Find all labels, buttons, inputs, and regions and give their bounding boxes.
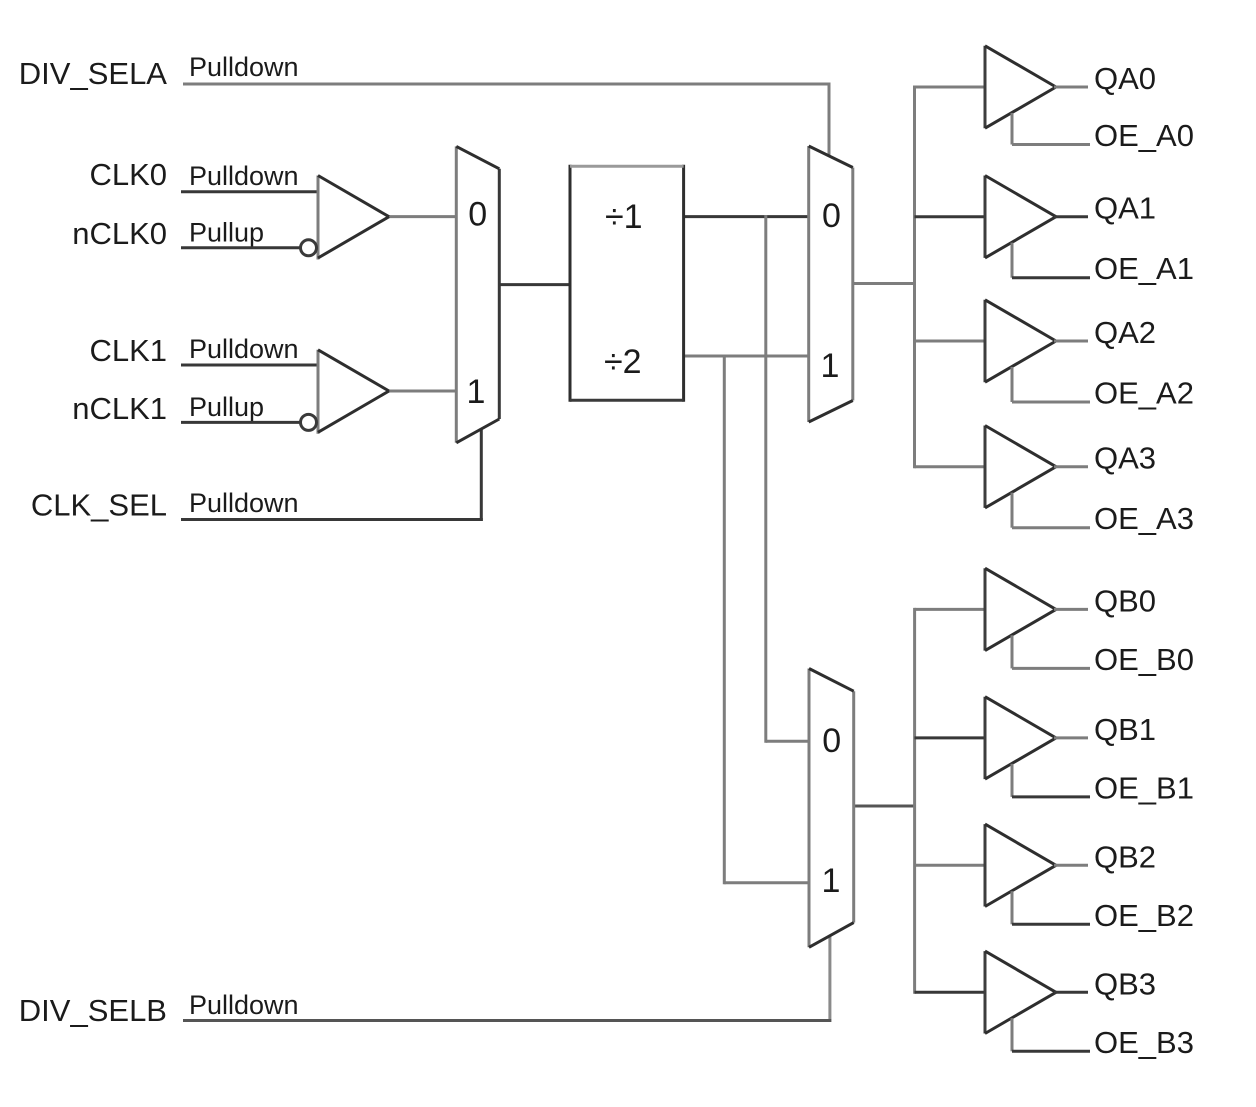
svg-text:CLK1: CLK1 bbox=[89, 333, 167, 368]
output buffer U8 (QA1) bbox=[985, 176, 1056, 258]
wire bus to buffer U14 input bbox=[915, 991, 986, 994]
wire QB2 output bbox=[1054, 864, 1088, 867]
svg-text:Pulldown: Pulldown bbox=[189, 161, 299, 191]
svg-text:QA1: QA1 bbox=[1094, 191, 1156, 226]
bank A divider select mux U5 bbox=[809, 146, 853, 422]
wire divider U4 div1 output to mux U5 input 0 bbox=[684, 215, 809, 218]
svg-text:QA3: QA3 bbox=[1094, 441, 1156, 476]
wire bus to buffer U10 input bbox=[915, 465, 986, 468]
svg-text:CLK_SEL: CLK_SEL bbox=[31, 488, 167, 523]
svg-text:OE_B2: OE_B2 bbox=[1094, 898, 1194, 933]
bank B divider select mux U6 bbox=[809, 669, 854, 948]
wire bus to buffer U7 input bbox=[915, 86, 986, 89]
svg-text:0: 0 bbox=[822, 722, 841, 760]
wire QA3 output bbox=[1054, 465, 1088, 468]
svg-text:OE_B3: OE_B3 bbox=[1094, 1025, 1194, 1060]
svg-text:Pulldown: Pulldown bbox=[189, 990, 299, 1020]
svg-text:Pullup: Pullup bbox=[189, 392, 264, 422]
wire OE_A1 enable input bbox=[1012, 243, 1090, 278]
svg-text:÷2: ÷2 bbox=[604, 343, 642, 381]
wire QA2 output bbox=[1054, 340, 1088, 343]
wire buffer U2 output to mux U3 input 1 bbox=[388, 390, 456, 393]
wire OE_B2 enable input bbox=[1012, 891, 1090, 924]
wire bus to buffer U8 input bbox=[915, 215, 986, 218]
wire OE_B0 enable input bbox=[1012, 635, 1090, 668]
bank B distribution bus bbox=[913, 608, 916, 994]
svg-text:OE_B0: OE_B0 bbox=[1094, 642, 1194, 677]
input buffer U2 (CLK1/nCLK1) bbox=[318, 350, 389, 434]
wire OE_A0 enable input bbox=[1012, 113, 1090, 145]
output buffer U14 (QB3) bbox=[985, 951, 1056, 1033]
wire div2 branch to mux U6 input 1 bbox=[724, 355, 809, 885]
clock select mux U3 bbox=[456, 146, 499, 442]
output buffer U9 (QA2) bbox=[985, 300, 1056, 382]
svg-text:÷1: ÷1 bbox=[605, 198, 643, 236]
wire DIV_SELB to mux U6 select bbox=[183, 936, 831, 1021]
svg-text:OE_A3: OE_A3 bbox=[1094, 501, 1194, 536]
wire CLK1 input bbox=[181, 364, 318, 367]
wire OE_B1 enable input bbox=[1012, 764, 1090, 797]
svg-text:Pulldown: Pulldown bbox=[189, 52, 299, 82]
inversion bubble on nCLK1 bbox=[301, 414, 317, 430]
svg-text:QB2: QB2 bbox=[1094, 839, 1156, 874]
output buffer U10 (QA3) bbox=[985, 426, 1056, 508]
svg-text:OE_A1: OE_A1 bbox=[1094, 251, 1194, 286]
wire bus to buffer U9 input bbox=[915, 340, 986, 343]
wire QB3 output bbox=[1054, 991, 1088, 994]
wire DIV_SELA to mux U5 select bbox=[183, 84, 831, 157]
wire CLK0 input bbox=[181, 190, 318, 193]
svg-text:1: 1 bbox=[822, 862, 841, 900]
svg-text:1: 1 bbox=[467, 373, 486, 411]
svg-text:Pulldown: Pulldown bbox=[189, 334, 299, 364]
divider block U4 bbox=[570, 165, 684, 402]
svg-text:DIV_SELA: DIV_SELA bbox=[19, 56, 168, 91]
wire buffer U1 output to mux U3 input 0 bbox=[388, 215, 456, 218]
output buffer U11 (QB0) bbox=[985, 568, 1056, 650]
wire OE_A3 enable input bbox=[1012, 493, 1090, 528]
svg-text:QA0: QA0 bbox=[1094, 61, 1156, 96]
wire nCLK0 input bbox=[181, 246, 300, 249]
svg-text:Pulldown: Pulldown bbox=[189, 488, 299, 518]
wire div1 branch to mux U6 input 0 bbox=[766, 215, 809, 743]
wire OE_A2 enable input bbox=[1012, 367, 1090, 402]
svg-text:nCLK0: nCLK0 bbox=[72, 216, 167, 251]
wire bus to buffer U12 input bbox=[915, 736, 986, 739]
bank A distribution bus bbox=[913, 86, 916, 469]
wire divider U4 div2 output to mux U5 input 1 bbox=[684, 355, 809, 358]
wire mux U3 output to divider U4 input bbox=[499, 283, 570, 286]
svg-text:0: 0 bbox=[822, 197, 841, 235]
input buffer U1 (CLK0/nCLK0) bbox=[318, 176, 389, 260]
svg-text:QB0: QB0 bbox=[1094, 583, 1156, 618]
output buffer U13 (QB2) bbox=[985, 824, 1056, 906]
wire QB1 output bbox=[1054, 736, 1088, 739]
svg-text:OE_A0: OE_A0 bbox=[1094, 118, 1194, 153]
wire nCLK1 input bbox=[181, 421, 300, 424]
wire CLK_SEL to mux U3 select bbox=[181, 429, 483, 522]
inversion bubble on nCLK0 bbox=[301, 240, 317, 256]
output buffer U7 (QA0) bbox=[985, 46, 1056, 128]
svg-text:QB3: QB3 bbox=[1094, 966, 1156, 1001]
output buffer U12 (QB1) bbox=[985, 697, 1056, 779]
svg-text:QA2: QA2 bbox=[1094, 315, 1156, 350]
svg-text:OE_A2: OE_A2 bbox=[1094, 376, 1194, 411]
svg-text:Pullup: Pullup bbox=[189, 218, 264, 248]
svg-text:CLK0: CLK0 bbox=[89, 157, 167, 192]
wire mux U5 output to bank A bus bbox=[853, 282, 916, 285]
wire QB0 output bbox=[1054, 608, 1088, 611]
wire bus to buffer U11 input bbox=[915, 608, 986, 611]
wire mux U6 output to bank B bus bbox=[854, 805, 916, 808]
svg-text:DIV_SELB: DIV_SELB bbox=[19, 993, 167, 1028]
svg-text:nCLK1: nCLK1 bbox=[72, 391, 167, 426]
wire QA0 output bbox=[1054, 86, 1088, 89]
wire OE_B3 enable input bbox=[1012, 1018, 1090, 1051]
svg-text:0: 0 bbox=[468, 196, 487, 234]
svg-text:OE_B1: OE_B1 bbox=[1094, 770, 1194, 805]
wire bus to buffer U13 input bbox=[915, 864, 986, 867]
svg-text:1: 1 bbox=[821, 347, 840, 385]
svg-text:QB1: QB1 bbox=[1094, 712, 1156, 747]
wire QA1 output bbox=[1054, 215, 1088, 218]
